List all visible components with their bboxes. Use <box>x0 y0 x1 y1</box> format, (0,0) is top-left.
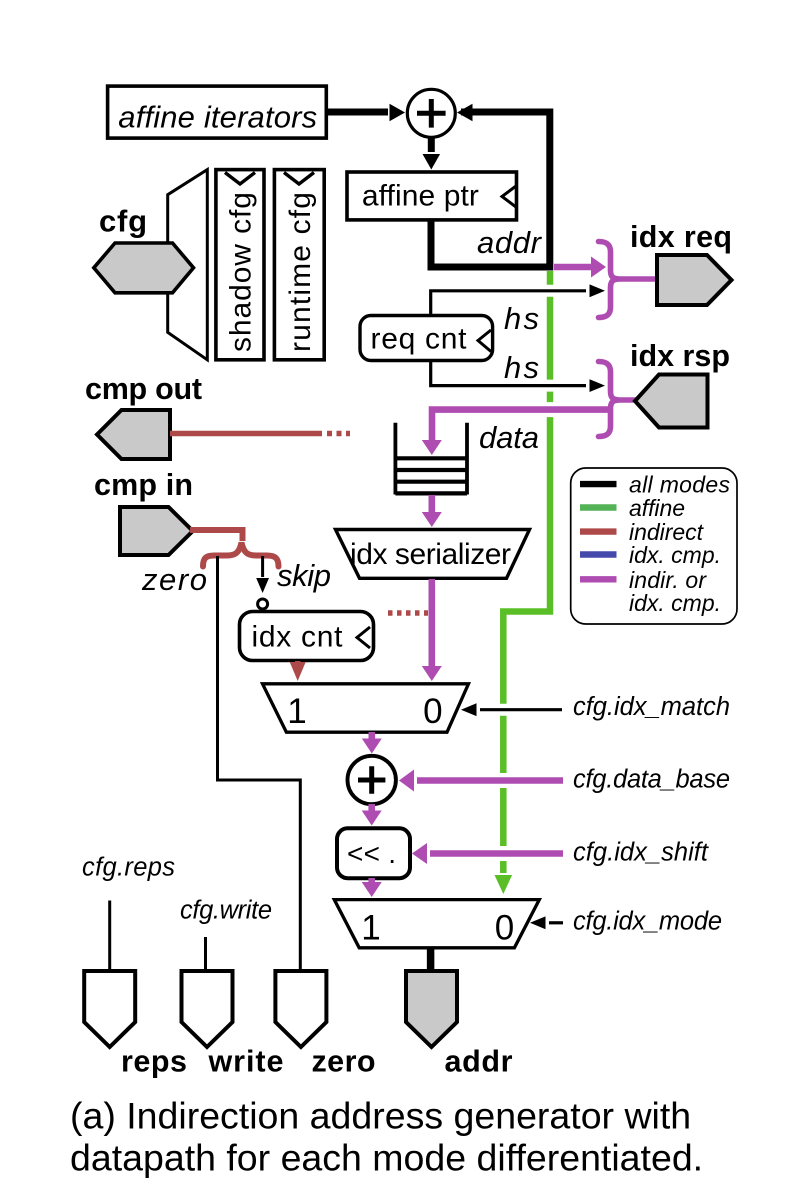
wire: hs top <box>540 285 560 297</box>
wire: brace to idx rsp pentagon <box>617 397 637 403</box>
svg-text:cfg.idx_match: cfg.idx_match <box>573 693 730 721</box>
wire: red dashed indirect join <box>388 610 428 616</box>
svg-text:idx rsp: idx rsp <box>630 339 730 373</box>
svg-text:runtime cfg: runtime cfg <box>284 192 317 352</box>
wire arrowhead into adder left <box>390 104 406 122</box>
svg-text:cfg.idx_mode: cfg.idx_mode <box>573 908 722 936</box>
svg-text:cfg.idx_shift: cfg.idx_shift <box>573 839 709 867</box>
wire: skip arrow <box>261 556 264 577</box>
legend swatch all modes <box>580 481 617 487</box>
svg-text:datapath for each mode differe: datapath for each mode differentiated. <box>70 1137 703 1179</box>
box: affine ptr <box>347 172 517 220</box>
svg-text:0: 0 <box>495 909 514 948</box>
wire: cmp in red <box>190 530 243 541</box>
box: req cnt <box>360 316 493 361</box>
port: reps pentagon <box>84 971 135 1047</box>
svg-text:write: write <box>208 1045 284 1079</box>
legend swatch affine <box>580 504 617 510</box>
box: shadow cfg <box>216 170 264 360</box>
wire: adder2 out purple <box>368 804 375 812</box>
svg-text:req cnt: req cnt <box>371 323 468 356</box>
component: cfg fanout trapezoid <box>168 170 208 360</box>
svg-text:affine iterators: affine iterators <box>118 99 317 134</box>
notch on req cnt <box>478 330 491 352</box>
svg-text:idx req: idx req <box>630 220 732 254</box>
port: write pentagon <box>182 971 233 1047</box>
svg-text:1: 1 <box>361 909 380 948</box>
legend swatch idx cmp <box>580 551 617 557</box>
svg-text:(a) Indirection address genera: (a) Indirection address generator with <box>70 1095 691 1137</box>
svg-text:cmp in: cmp in <box>94 468 193 502</box>
mux2 trapezoid <box>334 900 539 948</box>
wire: feedback loop addr to adder (thick black) <box>431 112 550 267</box>
wire: zero long wire <box>218 556 301 971</box>
svg-text:0: 0 <box>423 692 442 731</box>
svg-text:shadow cfg: shadow cfg <box>225 192 258 352</box>
box: affine iterators <box>108 86 327 138</box>
svg-text:cfg.data_base: cfg.data_base <box>573 766 730 794</box>
legend swatch indir or idx cmp <box>580 576 617 582</box>
wire: addr stub <box>427 948 435 971</box>
wire arrowhead into adder right <box>457 104 473 122</box>
wire: purple data from brace to queue <box>540 402 560 417</box>
wire: cfg.idx_shift purple arrow <box>494 846 513 861</box>
wire: hs bottom <box>540 380 560 392</box>
legend swatch indirect <box>580 528 617 534</box>
wire: cmp out red <box>170 431 322 437</box>
svg-text:cfg.write: cfg.write <box>180 897 272 925</box>
wire: cfg.data_base purple arrow <box>494 773 513 788</box>
wire: serializer out purple to mux1 <box>428 579 435 667</box>
svg-text:zero: zero <box>141 562 207 597</box>
svg-text:cfg.reps: cfg.reps <box>82 854 175 882</box>
port: zero pentagon <box>275 971 326 1047</box>
op: adder U1 (+) <box>407 89 455 137</box>
wire: mux1 out purple <box>368 732 375 740</box>
wire: shifter out purple <box>368 878 375 884</box>
port: cmp in pentagon <box>120 507 193 555</box>
box: runtime cfg <box>274 170 324 360</box>
wire: queue out purple <box>428 495 435 513</box>
svg-text:data: data <box>479 420 539 455</box>
svg-text:addr: addr <box>445 1045 513 1079</box>
box: idx cnt <box>240 612 374 661</box>
svg-text:skip: skip <box>277 558 331 593</box>
wire: affine iterators to adder <box>326 109 388 116</box>
op: adder U2 (+) <box>348 756 396 804</box>
wire: cfg.idx_mode arrow <box>549 921 563 924</box>
green arrowhead into mux2 input 0 <box>495 875 513 894</box>
port: cmp out pentagon <box>97 410 170 459</box>
svg-text:idx. cmp.: idx. cmp. <box>629 542 721 568</box>
svg-text:affine ptr: affine ptr <box>362 179 479 212</box>
wire: idx cnt out red arrow <box>295 661 301 665</box>
svg-text:idx. cmp.: idx. cmp. <box>629 590 721 616</box>
brace: idx req bundle <box>599 242 619 318</box>
port: idx req pentagon <box>657 255 732 305</box>
svg-text:all modes: all modes <box>629 472 731 498</box>
port: cfg hexagon <box>94 243 194 293</box>
legend box <box>571 468 737 624</box>
svg-text:addr: addr <box>477 225 543 260</box>
svg-text:idx serializer: idx serializer <box>350 538 511 571</box>
bubble on idx cnt <box>258 599 268 609</box>
brace: idx rsp bundle <box>599 362 619 437</box>
wire: adder down to affine ptr <box>428 137 435 152</box>
svg-text:reps: reps <box>121 1045 187 1079</box>
svg-text:idx cnt: idx cnt <box>252 621 344 654</box>
wire: green affine mode path <box>503 271 550 873</box>
svg-text:1: 1 <box>287 692 306 731</box>
notch on idx cnt <box>357 627 370 648</box>
wire: cfg.idx_match arrow <box>494 704 513 716</box>
brace: cmp in split (red) <box>203 543 279 567</box>
port: addr pentagon <box>406 971 457 1047</box>
component: data queue (FIFO) <box>395 423 467 495</box>
svg-text:<< .: << . <box>347 838 396 869</box>
wire: write stub <box>204 937 207 971</box>
mux1 trapezoid <box>263 684 469 732</box>
notch on affine ptr <box>502 186 516 207</box>
wire: purple addr stub to idx req brace <box>554 264 592 271</box>
port: idx rsp pentagon <box>635 375 708 428</box>
component: idx serializer trapezoid <box>336 530 530 579</box>
wire: brace to idx req pentagon <box>616 276 657 282</box>
svg-text:cfg: cfg <box>99 204 147 239</box>
box: shifter << <box>337 828 410 878</box>
svg-text:cmp out: cmp out <box>85 372 202 406</box>
svg-text:affine: affine <box>629 495 685 521</box>
wire: reps stub <box>108 901 111 972</box>
svg-text:zero: zero <box>312 1045 376 1079</box>
